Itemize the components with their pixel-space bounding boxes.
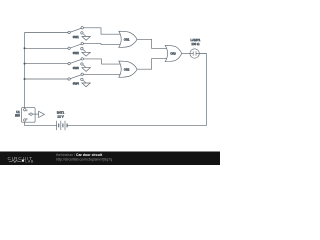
wire OR3 to LAMP1 <box>182 53 190 55</box>
svg-text:100 Ω: 100 Ω <box>191 42 200 46</box>
node junction bus-row4 <box>24 78 26 80</box>
switch SW3 <box>68 58 90 72</box>
svg-text:OR1: OR1 <box>124 37 130 41</box>
or-gate OR1 <box>119 31 137 47</box>
switch SW2 <box>68 42 90 56</box>
wire branch row3 <box>25 63 69 65</box>
wire branch row2 <box>25 47 69 49</box>
wire SW3 to OR2 input A <box>83 59 120 64</box>
svg-text:SW2: SW2 <box>73 51 80 55</box>
wire LAMP1 to right rail and bottom return <box>67 54 206 126</box>
wire left bus vertical <box>24 33 26 109</box>
lamp LAMP1 <box>190 38 201 58</box>
wire battery to U1 <box>25 121 57 125</box>
or-gate OR3 <box>165 45 182 61</box>
svg-text:555: 555 <box>15 114 20 118</box>
wire OR2 to OR3 input B <box>137 59 167 70</box>
switch SW4 <box>68 73 90 87</box>
svg-text:12 V: 12 V <box>57 114 63 118</box>
wire branch row1 <box>25 32 69 34</box>
node junction bus-row2 <box>24 47 26 49</box>
watermark bar <box>0 152 220 166</box>
buzzer U1 <box>15 108 44 123</box>
watermark logo <box>8 156 34 163</box>
switch SW1 <box>68 27 90 41</box>
svg-text:SW1: SW1 <box>73 35 80 39</box>
svg-text:OR3: OR3 <box>170 52 176 56</box>
svg-text:OR2: OR2 <box>124 67 130 71</box>
svg-text:http://circuitlab.com/c6q3amn7: http://circuitlab.com/c6q3amn7j6q7q <box>56 157 112 161</box>
wire branch row4 <box>25 78 69 80</box>
battery BAT1 <box>57 111 68 131</box>
wire SW2 to OR1 input B <box>83 43 120 46</box>
watermark text <box>56 153 112 162</box>
wire OR1 to OR3 input A <box>137 39 167 48</box>
svg-text:SW4: SW4 <box>73 82 80 86</box>
wire SW4 to OR2 input B <box>83 73 120 75</box>
svg-text:SW3: SW3 <box>73 66 80 70</box>
node junction bus-row3 <box>24 63 26 65</box>
or-gate OR2 <box>119 61 137 77</box>
svg-text:thehinshan / Car door circuit: thehinshan / Car door circuit <box>56 153 103 157</box>
wire SW1 to OR1 input A <box>83 28 120 34</box>
svg-text:LAB: LAB <box>25 160 34 164</box>
